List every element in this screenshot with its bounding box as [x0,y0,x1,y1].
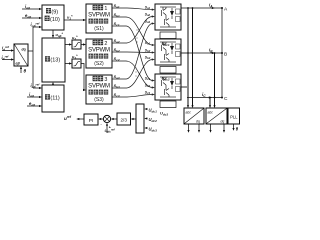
svg-text:(13): (13) [50,58,60,64]
transistor Q1 module A [160,7,180,27]
wire bus V1 [187,7,189,108]
wire transform output [28,50,33,52]
svg-text:B: B [224,51,227,57]
wire phase line B [187,52,223,54]
diode D1 module A [170,8,174,19]
collector bar Udc [136,104,144,133]
text SVPWM S3 [88,76,110,103]
svg-text:(9): (9) [51,9,58,15]
transform dq-ab U2 [14,44,28,66]
svg-text:2: 2 [104,41,107,47]
wire ref bus vertical [32,27,34,88]
SVPWM unit S2 [86,39,112,68]
wire EQ13 to limiter L1 [65,43,72,45]
gate pads module B [176,44,181,57]
text eq9 [46,8,58,15]
wire e_ab into EQ11 [27,105,42,107]
svg-text:θ: θ [24,69,27,74]
transistor Q2 module B [165,53,170,62]
SVPWM unit S1 [86,4,112,33]
text eq11 [45,94,60,101]
svg-text:PI: PI [89,118,94,124]
wire T2 to PLL [227,115,228,117]
ellipsis dots upper [136,29,137,42]
capacitor C3 [160,101,176,108]
block EQ13 [42,38,65,82]
averaging block 2/3 [117,113,131,125]
wire Sb2 to module B [112,51,155,53]
svg-text:SVPWM: SVPWM [88,84,110,90]
wire PI to id_ref [76,118,84,120]
transistor Q1 module C [160,77,180,97]
svg-text:(10): (10) [50,17,60,23]
transform abc-dq T2 [206,108,227,124]
capacitor C2 [160,67,176,74]
svg-text:3: 3 [104,77,107,83]
transform abc-dq T1 [184,108,204,124]
svg-text:SVPWM: SVPWM [88,48,110,54]
wire phase line A [181,7,223,9]
svg-text:(S1): (S1) [94,26,104,32]
wire Sc2 to module C [112,61,155,89]
gate pads module C [176,79,181,92]
wire i_ab_ref into EQ11 [33,87,42,89]
text SVPWM S1 [88,5,110,32]
wire phase line C [187,96,223,98]
wire i_q_ref into transform [2,58,14,60]
wire T2 output ud [209,124,211,133]
text eq13 [45,56,60,63]
wire EQ9-10 to EQ13 [52,30,54,38]
svg-text:(S2): (S2) [94,61,104,67]
PI controller [84,114,98,125]
wire i_d_ref into transform [2,49,14,51]
svg-text:SVPWM: SVPWM [88,13,110,19]
wire e_ab into EQ9-10 [22,17,42,19]
wire Sa2 to module A [112,15,155,43]
block EQ11 [42,85,64,112]
gate pads module A [176,9,181,22]
svg-text:PLL: PLL [230,115,238,120]
wire Sb1 to module B [112,17,155,46]
transistor Q2 module C [165,88,170,97]
svg-text:(S3): (S3) [94,97,104,103]
wire bus V3 [209,97,211,108]
diode D1 module B [170,43,174,54]
wire EQ9-10 to SVPWM S1 [64,19,86,21]
wire Udc3 into collector [144,127,147,129]
SVPWM unit S3 [86,75,112,104]
svg-text:1: 1 [104,6,107,12]
svg-text:dq: dq [196,120,200,124]
wire bus V2 [191,7,193,108]
wire Sa3 to module A [112,22,155,79]
wire grid bus vertical [221,8,223,98]
wire Udc1 into collector [144,108,147,110]
wire i_ab into EQ11 [27,96,42,98]
transistor Q2 module A [165,18,170,27]
wire EQ13 to limiter L2 [65,62,72,64]
svg-text:C: C [224,96,228,102]
wire bus V4 [213,52,215,108]
svg-text:abc: abc [208,111,214,115]
svg-text:2/3: 2/3 [121,118,128,123]
inverter module B [155,39,181,65]
wire limiter L2 to SVPWM S3 [81,64,86,92]
wire i_ab into EQ9-10 [22,8,42,10]
wire Sa1 to module A [112,8,155,11]
wire EQ11 to EQ13 [52,82,54,85]
limiter L2 [72,59,81,68]
svg-text:αβ: αβ [16,62,20,66]
block EQ9-10 [42,5,64,30]
wire 2/3 to summing [111,118,117,120]
wire T1 output iq [198,124,200,133]
wire theta into transform [20,66,22,73]
wire T1 output id [187,124,189,133]
wire PLL output theta [232,124,234,131]
inverter module A [155,4,181,30]
transistor Q1 module B [160,42,180,62]
PLL U3 [228,108,240,124]
wire T2 output uq [223,124,225,133]
svg-text:(11): (11) [50,96,60,102]
wire Udc2 into collector [144,117,147,119]
ellipsis dots lower [135,63,136,76]
wire i_ab_ref into EQ9-10 [33,26,42,28]
inverter module C [155,74,181,100]
wire module C output [181,86,187,88]
wire module B output [181,52,187,54]
capacitor C1 [160,32,176,39]
wire Sc3 to module C [112,93,155,97]
wire Sc1 to module C [112,26,155,82]
text eq10 [45,16,60,23]
limiter L1 [72,40,81,49]
svg-text:dq: dq [221,120,225,124]
wire limiter L1 to SVPWM S2 [81,43,86,45]
svg-text:abc: abc [186,111,192,115]
wire Udc_ref into summing [106,123,108,133]
text SVPWM S2 [88,40,110,67]
wire Sb3 to module B [112,58,155,88]
wire collector to 2/3 [131,118,136,120]
wire summing to PI [98,118,103,120]
diode D1 module C [170,78,174,89]
summing junction X1 [103,115,110,122]
